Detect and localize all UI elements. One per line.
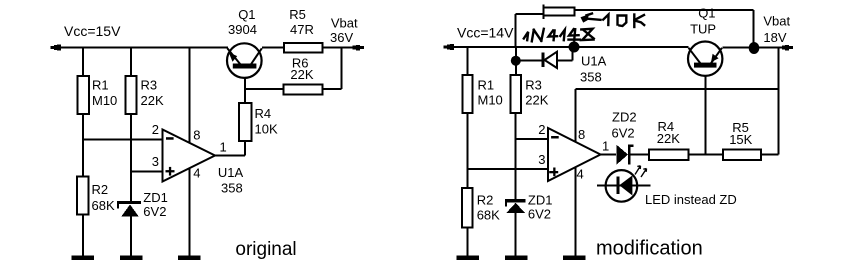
svg-text:358: 358 xyxy=(580,69,602,84)
svg-text:Vcc=14V: Vcc=14V xyxy=(457,24,514,40)
svg-text:8: 8 xyxy=(193,128,200,143)
svg-text:R4: R4 xyxy=(255,106,272,121)
svg-text:6V2: 6V2 xyxy=(143,204,166,219)
svg-text:15K: 15K xyxy=(729,132,752,147)
svg-text:4: 4 xyxy=(577,167,584,182)
svg-text:36V: 36V xyxy=(330,30,353,45)
svg-text:2: 2 xyxy=(538,122,545,137)
svg-text:47R: 47R xyxy=(290,22,314,37)
svg-text:R3: R3 xyxy=(141,77,158,92)
svg-text:M10: M10 xyxy=(478,92,503,107)
svg-text:M10: M10 xyxy=(92,93,117,108)
svg-text:LED instead ZD: LED instead ZD xyxy=(645,192,737,207)
svg-text:modification: modification xyxy=(596,238,703,260)
svg-text:3: 3 xyxy=(538,152,545,167)
svg-text:3: 3 xyxy=(152,154,159,169)
svg-text:TUP: TUP xyxy=(690,22,716,37)
svg-text:R5: R5 xyxy=(289,7,306,22)
svg-text:R2: R2 xyxy=(477,192,494,207)
svg-text:18V: 18V xyxy=(763,30,786,45)
svg-text:3904: 3904 xyxy=(228,22,257,37)
svg-text:Q1: Q1 xyxy=(698,6,715,21)
svg-text:U1A: U1A xyxy=(218,165,244,180)
svg-text:Q1: Q1 xyxy=(238,7,255,22)
svg-text:R1: R1 xyxy=(92,77,109,92)
svg-text:U1A: U1A xyxy=(581,53,607,68)
svg-text:ZD1: ZD1 xyxy=(143,190,168,205)
svg-text:68K: 68K xyxy=(92,198,115,213)
svg-text:original: original xyxy=(235,239,296,260)
svg-text:68K: 68K xyxy=(477,208,500,223)
svg-text:4: 4 xyxy=(193,166,200,181)
svg-text:6V2: 6V2 xyxy=(612,126,635,141)
svg-text:R1: R1 xyxy=(478,77,495,92)
svg-text:Vbat: Vbat xyxy=(763,14,790,29)
svg-text:1: 1 xyxy=(220,140,227,155)
svg-text:2: 2 xyxy=(152,122,159,137)
svg-text:22K: 22K xyxy=(290,67,313,82)
svg-text:1: 1 xyxy=(602,139,609,154)
svg-text:10K: 10K xyxy=(255,122,278,137)
svg-text:358: 358 xyxy=(221,181,243,196)
svg-text:Vcc=15V: Vcc=15V xyxy=(64,23,121,39)
svg-text:ZD1: ZD1 xyxy=(528,192,553,207)
svg-text:Vbat: Vbat xyxy=(331,15,358,30)
svg-text:6V2: 6V2 xyxy=(528,206,551,221)
svg-text:22K: 22K xyxy=(141,93,164,108)
svg-text:22K: 22K xyxy=(525,92,548,107)
svg-text:R3: R3 xyxy=(525,77,542,92)
svg-text:22K: 22K xyxy=(657,131,680,146)
svg-text:8: 8 xyxy=(578,127,585,142)
svg-text:R2: R2 xyxy=(92,182,109,197)
svg-text:ZD2: ZD2 xyxy=(612,110,637,125)
